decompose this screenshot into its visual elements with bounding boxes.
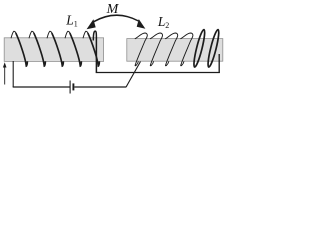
svg-text:2: 2 xyxy=(165,21,169,30)
mutual inductance arc arrow xyxy=(94,15,139,22)
inductor L2 turn 1 wire xyxy=(135,33,148,66)
inductor L2 turn 4 wire xyxy=(180,33,193,66)
battery long plate xyxy=(69,81,71,94)
arrowhead left xyxy=(87,19,96,29)
inductor L1 turn 1 front wire xyxy=(16,33,28,66)
core bar of coil L2 xyxy=(127,39,223,62)
inductor L2 turn 5 loop xyxy=(192,29,207,68)
L1 right terminal hook and lead xyxy=(93,31,96,72)
svg-text:L: L xyxy=(157,14,166,29)
inductor L1 turn 2 back wire and hump xyxy=(29,31,34,38)
svg-text:M: M xyxy=(106,2,120,17)
core bar of coil L1 xyxy=(4,38,103,62)
wire: diagonal up to L2 left terminal xyxy=(126,62,141,88)
inductor L2 turn 3 wire xyxy=(165,33,178,66)
wire: L1 left terminal down xyxy=(12,61,14,87)
inductor L1 turn 5 front wire xyxy=(88,33,100,66)
wire: bottom wire right of battery xyxy=(74,86,126,88)
inductor L1 turn 4 back wire and hump xyxy=(65,31,70,38)
battery short plate xyxy=(72,83,74,90)
L2 right terminal lead xyxy=(218,54,220,73)
svg-text:L: L xyxy=(65,12,74,27)
wire: horizontal return wire xyxy=(96,72,220,74)
arrowhead right xyxy=(137,19,146,29)
inductor L1 turn 3 front wire xyxy=(52,33,64,66)
wire: bottom wire left of battery xyxy=(13,86,70,88)
inductor L1 turn 2 front wire xyxy=(34,33,46,66)
inductor L1 turn 1 back wire and hump xyxy=(11,31,16,38)
inductor L1 turn 4 front wire xyxy=(70,33,82,66)
inductor L2 turn 6 loop xyxy=(206,29,221,68)
inductor L2 turn 2 wire xyxy=(150,33,163,66)
inductor L1 turn 3 back wire and hump xyxy=(47,31,52,38)
svg-text:1: 1 xyxy=(74,20,78,29)
inductor L1 turn 5 back wire and hump xyxy=(83,31,88,38)
current direction arrow xyxy=(4,67,6,85)
